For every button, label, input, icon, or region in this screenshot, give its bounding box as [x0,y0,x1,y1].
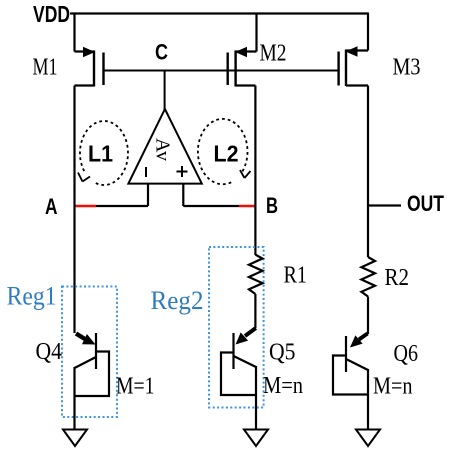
svg-text:Av: Av [152,138,174,161]
svg-text:Reg2: Reg2 [151,286,204,315]
transistor M3 [339,46,368,86]
wire A to minus input [96,205,148,207]
svg-text:L1: L1 [88,141,113,167]
svg-text:VDD: VDD [33,1,70,27]
node B red wire segment [239,205,257,207]
svg-text:Q5: Q5 [269,340,296,366]
gate wire (M1 to M3) [104,70,339,72]
ground below Q6 [356,430,380,447]
svg-text:Reg1: Reg1 [7,282,57,311]
wire op-amp plus input stub [182,184,184,206]
svg-text:Q6: Q6 [394,341,419,367]
op-amp U1 triangle [128,109,201,184]
wire R1 to Q5 [254,294,256,328]
ground below Q5 [244,430,268,447]
wire Q5 to ground [255,395,257,430]
wire M3 drain down to R2 [367,86,369,258]
transistor M2 [228,47,257,87]
wire plus input to B [183,205,239,207]
svg-text:C: C [155,40,168,65]
Reg1 dotted box [62,287,117,418]
resistor R1 [249,255,263,294]
svg-text:M=n: M=n [373,374,413,400]
wire M2 source drop [255,13,257,52]
svg-text:OUT: OUT [407,191,444,216]
VDD rail wire [70,12,368,14]
transistor Q4 [74,333,110,396]
wire M2 drain down to R1 [254,86,256,256]
wire op-amp minus input stub [147,184,149,206]
svg-text:M=n: M=n [263,373,303,399]
svg-text:M3: M3 [393,55,421,81]
svg-text:M=1: M=1 [116,374,155,400]
svg-text:A: A [45,194,58,219]
wire M1 source drop [73,13,75,52]
svg-text:M1: M1 [33,55,58,81]
ground below Q4 [63,430,87,447]
loop L2 arrowhead [240,170,251,178]
svg-text:M2: M2 [260,41,287,67]
wire OUT stub [368,204,401,206]
resistor R2 [361,257,375,297]
wire M1 drain down to Q4 [73,86,75,334]
op-amp plus input mark [177,166,188,177]
svg-text:R2: R2 [385,265,410,291]
wire C to op-amp [164,71,166,111]
wire Q6 to ground [367,395,369,431]
wire R2 to Q6 [367,297,369,335]
loop L2 dashed [198,119,248,184]
loop L1 dashed [80,121,128,185]
svg-text:Q4: Q4 [36,339,63,365]
svg-text:R1: R1 [284,263,308,289]
transistor Q5 [221,328,257,395]
loop L1 arrowhead [78,173,90,182]
svg-text:L2: L2 [214,141,239,167]
op-amp minus input mark [145,167,147,177]
wire Q4 to ground [73,396,75,430]
wire M3 source drop [367,13,369,51]
transistor M1 [75,47,104,87]
Reg2 dotted box [209,247,264,408]
transistor Q6 [333,334,369,395]
svg-text:B: B [266,193,278,218]
node A red wire segment [74,205,97,207]
